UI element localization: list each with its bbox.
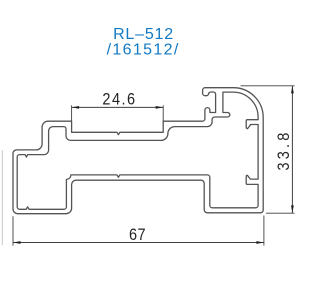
dimension 24.6: extension lines [71, 105, 73, 121]
dimension 33.8: extension lines [241, 85, 295, 87]
dimension 33.8: dimension line [291, 86, 293, 213]
dimension 67: left arrow [13, 241, 21, 244]
profile outer contour [13, 88, 263, 214]
svg-text:/161512/: /161512/ [107, 42, 180, 59]
dimension 24.6: right arrow [156, 106, 164, 109]
dimension 24.6: left arrow [72, 106, 80, 109]
inner contour: unified cavity (box + main + right tube) [17, 92, 258, 209]
svg-text:33.8: 33.8 [275, 130, 293, 171]
svg-text:67: 67 [129, 226, 146, 244]
dimension 67: extension lines [12, 216, 14, 245]
dimension 33.8: top arrow [291, 86, 294, 94]
dimension 67: dimension line [13, 242, 264, 244]
dimension 24.6: dimension line [72, 106, 164, 108]
svg-text:24.6: 24.6 [102, 91, 136, 109]
dimension 67: right arrow [256, 241, 264, 244]
faint page edge line [1, 150, 3, 245]
dimension 33.8: bottom arrow [291, 205, 294, 213]
